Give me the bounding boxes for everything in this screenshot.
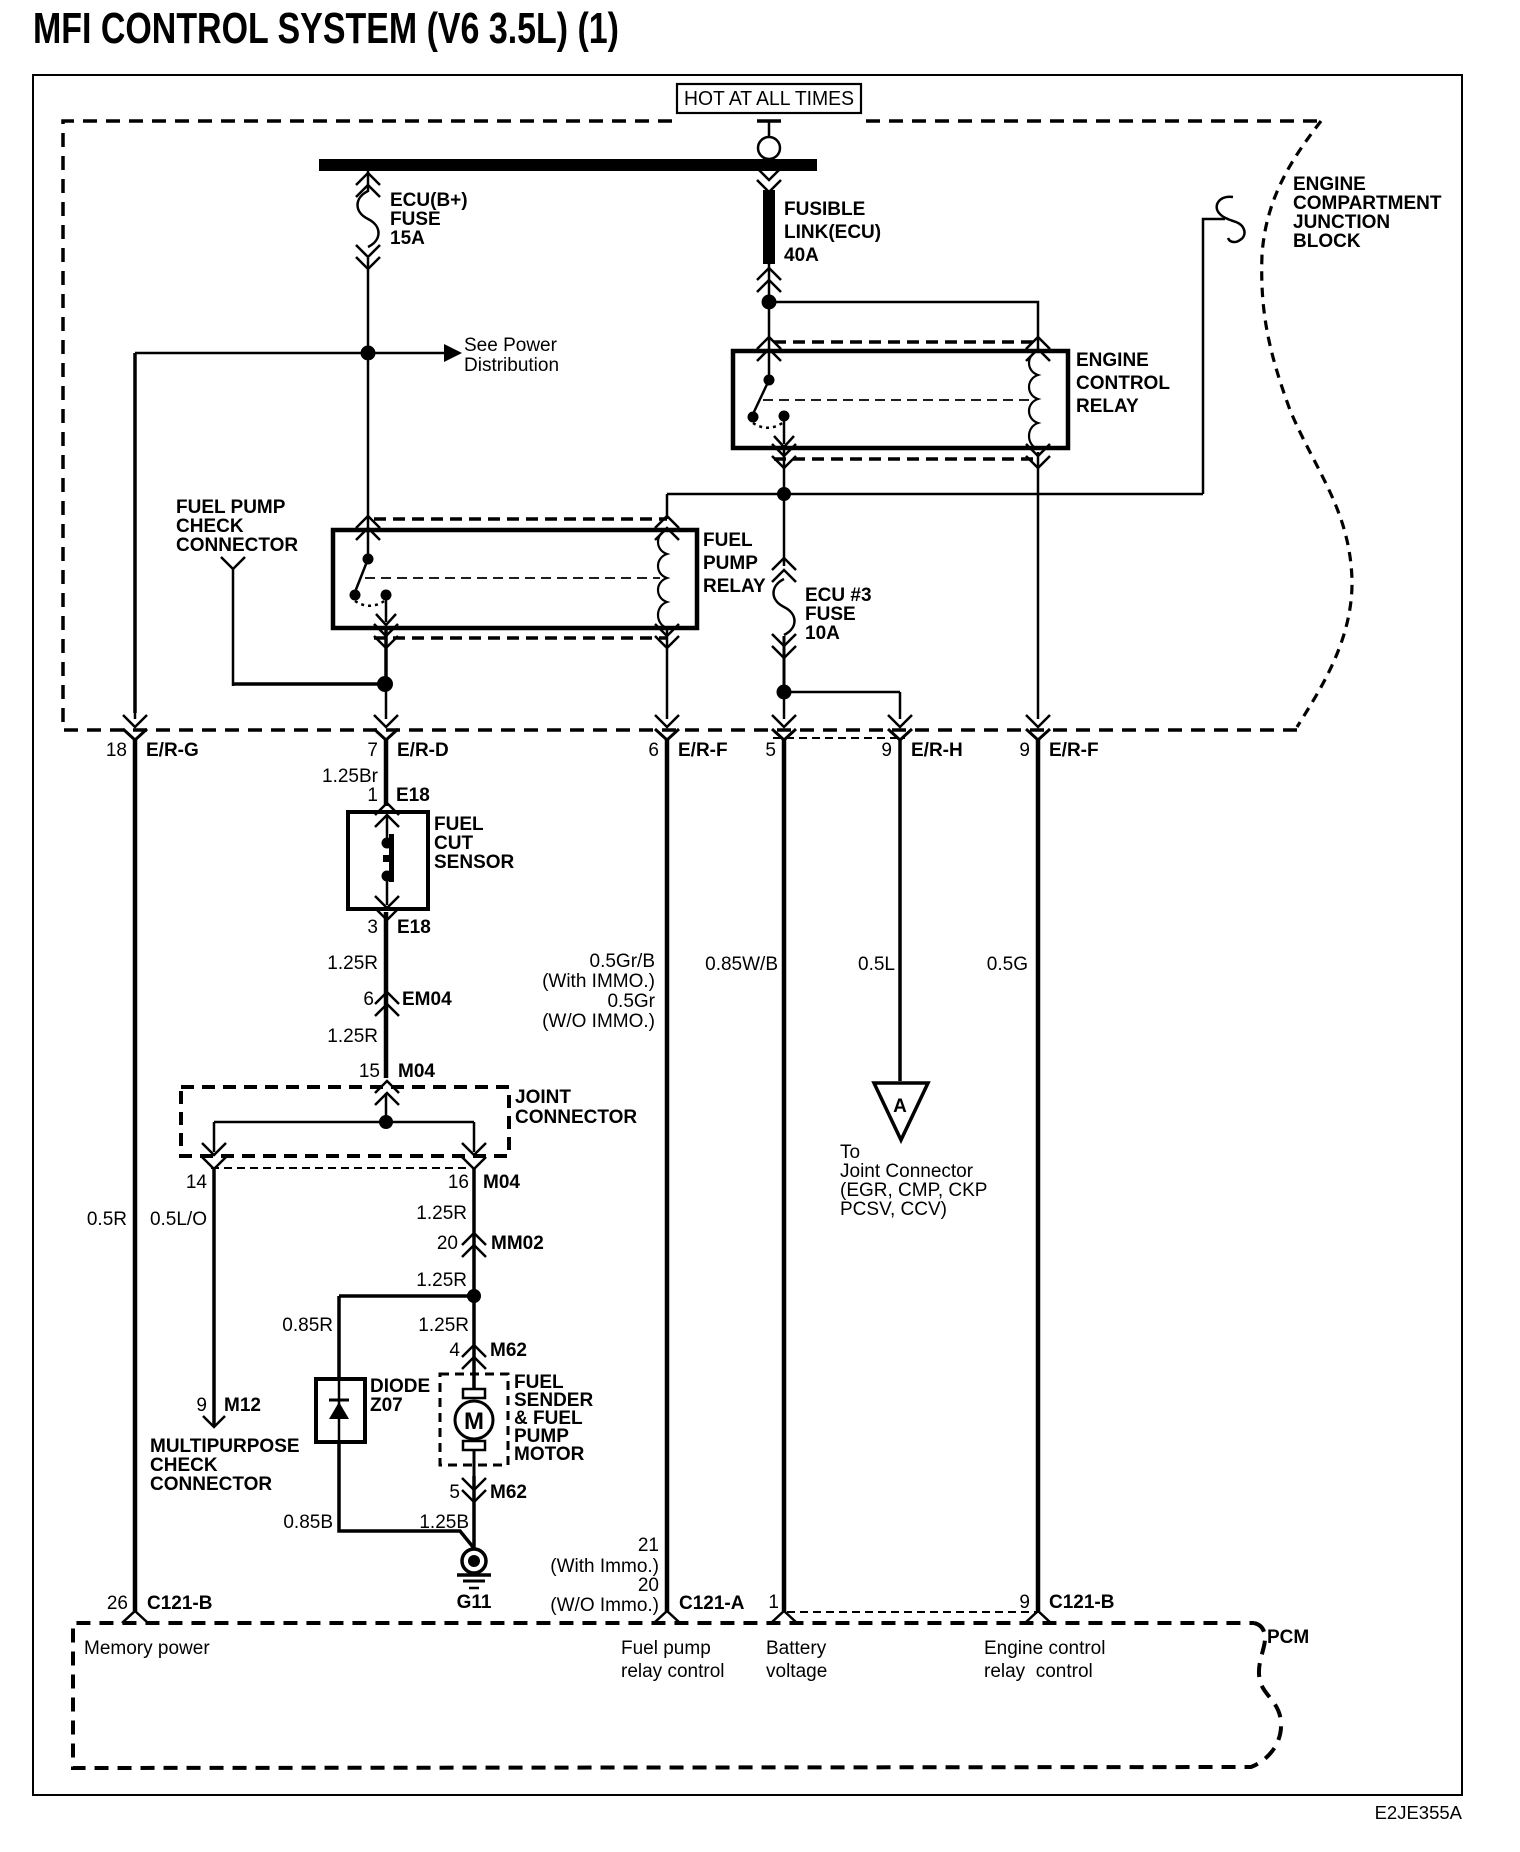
fuel cut sensor: [348, 803, 428, 920]
svg-text:M04: M04: [483, 1172, 520, 1193]
svg-text:E/R-D: E/R-D: [397, 740, 449, 761]
fuel pump relay: [333, 516, 697, 648]
wire: diode bottom to ground: [339, 1442, 473, 1547]
wire: E/R-H 9 column to triangle A: [899, 692, 902, 719]
svg-text:Joint Connector: Joint Connector: [840, 1161, 974, 1182]
svg-text:FUEL: FUEL: [703, 530, 753, 551]
pin 9 E/R-F label: [1019, 740, 1098, 761]
svg-text:To: To: [840, 1142, 860, 1163]
pin 9 E/R-H label: [881, 740, 962, 761]
secondary connector dash at C121: [787, 1611, 1040, 1613]
wire: memory power column (E/R-G 18): [133, 353, 137, 713]
relay switch: [363, 554, 374, 565]
svg-text:FUSIBLE: FUSIBLE: [784, 199, 865, 220]
svg-text:RELAY: RELAY: [703, 576, 766, 597]
triangle A reference: [874, 1083, 928, 1140]
svg-text:(EGR, CMP, CKP: (EGR, CMP, CKP: [840, 1180, 987, 1201]
svg-text:0.5L: 0.5L: [858, 954, 895, 975]
connector MM02 pin 20: [462, 1233, 486, 1245]
node E1 junction dot: [777, 685, 792, 700]
connector E/R-D crossing at junction block border: [374, 715, 398, 740]
svg-text:20: 20: [437, 1233, 458, 1254]
PCM dashed outline: [73, 1623, 1281, 1768]
svg-text:See Power: See Power: [464, 335, 558, 356]
svg-text:JUNCTION: JUNCTION: [1293, 212, 1390, 233]
connector M62 pin 4: [462, 1345, 486, 1357]
svg-text:Z07: Z07: [370, 1395, 403, 1416]
svg-text:14: 14: [186, 1172, 208, 1193]
svg-text:M: M: [464, 1408, 484, 1435]
relay coil: [658, 530, 667, 628]
diode Z07: [316, 1379, 365, 1442]
PCM pin function labels: [84, 1638, 1105, 1682]
label DIODE Z07: [370, 1376, 430, 1416]
junction block hook symbol: [1217, 197, 1245, 242]
secondary connector dashes under border: [773, 737, 905, 739]
wire: E/R-F 6 column (fuel pump relay control): [666, 630, 669, 719]
bus terminal circle: [758, 137, 780, 159]
svg-text:E/R-F: E/R-F: [678, 740, 728, 761]
svg-text:CHECK: CHECK: [176, 516, 244, 537]
svg-text:E/R-G: E/R-G: [146, 740, 199, 761]
svg-text:0.5R: 0.5R: [87, 1209, 127, 1230]
connector E/R-F pin 9 crossing at junction block border: [1026, 715, 1050, 740]
ground G11: [457, 1549, 492, 1613]
svg-text:voltage: voltage: [766, 1661, 827, 1682]
fuel sender & fuel pump motor: [440, 1374, 508, 1476]
junction block wavy right edge: [1262, 121, 1352, 727]
joint connector: [181, 1081, 509, 1169]
wire: bus to ECU(B+) fuse: [367, 171, 370, 192]
fuse ECU #3 10A: [774, 579, 795, 635]
fuel pump check connector fork terminal: [221, 557, 245, 569]
svg-text:MM02: MM02: [491, 1233, 544, 1254]
connector E/R-F pin 6 crossing at junction block border: [655, 715, 679, 740]
svg-text:Fuel pump: Fuel pump: [621, 1638, 711, 1659]
svg-text:(With IMMO.): (With IMMO.): [542, 971, 655, 992]
svg-text:Engine control: Engine control: [984, 1638, 1105, 1659]
connector EM04 pin 6: [375, 992, 399, 1004]
svg-text:LINK(ECU): LINK(ECU): [784, 222, 881, 243]
svg-text:M62: M62: [490, 1340, 527, 1361]
label ECU(B+) FUSE 15A: [390, 190, 468, 249]
svg-text:BLOCK: BLOCK: [1293, 231, 1361, 252]
svg-text:9: 9: [196, 1395, 207, 1416]
wire: node E1 right to E/R-H column: [784, 691, 900, 694]
node D1 junction dot: [377, 676, 393, 692]
wire: motor to ground: [472, 1476, 476, 1548]
svg-text:CONNECTOR: CONNECTOR: [150, 1474, 272, 1495]
label FUEL CUT SENSOR: [434, 814, 515, 873]
svg-text:1.25R: 1.25R: [327, 1026, 378, 1047]
wire: fuse to node E1: [783, 636, 786, 692]
svg-text:M12: M12: [224, 1395, 261, 1416]
svg-text:CONTROL: CONTROL: [1076, 373, 1170, 394]
svg-text:(With Immo.): (With Immo.): [550, 1556, 659, 1577]
svg-text:E/R-H: E/R-H: [911, 740, 963, 761]
label MULTIPURPOSE CHECK CONNECTOR: [150, 1436, 300, 1495]
svg-text:6: 6: [648, 740, 659, 761]
label FUEL SENDER & FUEL PUMP MOTOR: [514, 1372, 593, 1465]
svg-text:MULTIPURPOSE: MULTIPURPOSE: [150, 1436, 300, 1457]
svg-text:6: 6: [363, 989, 374, 1010]
wire: node A1 down to fuel pump relay switch: [367, 353, 370, 559]
wire: node B1 down into relay switch: [768, 302, 771, 380]
svg-text:C121-B: C121-B: [1049, 1592, 1114, 1613]
svg-text:COMPARTMENT: COMPARTMENT: [1293, 193, 1442, 214]
svg-text:ENGINE: ENGINE: [1076, 350, 1149, 371]
svg-text:HOT AT ALL TIMES: HOT AT ALL TIMES: [684, 87, 854, 110]
label ENGINE CONTROL RELAY: [1076, 350, 1170, 417]
svg-text:CONNECTOR: CONNECTOR: [176, 535, 298, 556]
svg-text:ECU(B+): ECU(B+): [390, 190, 468, 211]
svg-text:CHECK: CHECK: [150, 1455, 218, 1476]
wire: node C1 horizontal to junction block riser: [667, 219, 1225, 494]
svg-text:21: 21: [638, 1535, 659, 1556]
svg-text:1.25R: 1.25R: [416, 1203, 467, 1224]
wire: node B1 to engine control relay coil top: [769, 302, 1038, 351]
svg-text:5: 5: [449, 1482, 460, 1503]
svg-text:40A: 40A: [784, 245, 819, 266]
svg-text:Battery: Battery: [766, 1638, 827, 1659]
node F1 junction dot: [467, 1289, 481, 1303]
wire: fuse to node A1: [367, 258, 370, 353]
svg-text:7: 7: [367, 740, 378, 761]
svg-text:(W/O IMMO.): (W/O IMMO.): [542, 1011, 655, 1032]
svg-text:1.25R: 1.25R: [418, 1315, 469, 1336]
pin 18 E/R-G label: [106, 740, 199, 761]
connector pin 5 crossing at junction block border: [772, 715, 796, 740]
svg-text:DIODE: DIODE: [370, 1376, 430, 1397]
relay switch: [764, 375, 775, 386]
wire: fuel pump relay out down through border (E/R-D column top): [384, 628, 388, 684]
svg-text:PCM: PCM: [1267, 1627, 1309, 1648]
svg-text:FUEL PUMP: FUEL PUMP: [176, 497, 286, 518]
svg-text:FUSE: FUSE: [390, 209, 441, 230]
svg-text:A: A: [893, 1096, 907, 1117]
connector E/R-H crossing at junction block border: [888, 715, 912, 740]
svg-text:E2JE355A: E2JE355A: [1375, 1802, 1463, 1823]
pin 7 E/R-D label: [367, 740, 448, 761]
svg-text:0.5Gr/B: 0.5Gr/B: [590, 951, 655, 972]
svg-text:PCSV, CCV): PCSV, CCV): [840, 1199, 947, 1220]
label: See Power Distribution: [464, 335, 559, 376]
svg-text:PUMP: PUMP: [703, 553, 758, 574]
svg-text:relay control: relay control: [621, 1661, 725, 1682]
label ECU #3 FUSE 10A: [805, 585, 872, 644]
svg-text:10A: 10A: [805, 623, 840, 644]
label: ENGINE COMPARTMENT JUNCTION BLOCK: [1293, 174, 1442, 252]
arrowhead at M12: [203, 1416, 225, 1427]
wire: node A1 left to memory power column: [135, 352, 368, 355]
wire: fusible link to node B1: [768, 264, 771, 302]
wire from HOT box to bus terminal circle: [768, 121, 771, 138]
svg-text:1.25Br: 1.25Br: [322, 766, 379, 787]
svg-text:G11: G11: [457, 1592, 492, 1613]
pin 6 E/R-F label: [648, 740, 727, 761]
wire: E/R-D column down to fuel cut sensor: [385, 684, 388, 719]
fuse ECU(B+) 15A: [358, 191, 379, 247]
svg-text:Distribution: Distribution: [464, 355, 559, 376]
label FUEL PUMP RELAY: [703, 530, 766, 597]
svg-text:0.5Gr: 0.5Gr: [607, 991, 655, 1012]
pin labels 21/20 C121-A: [550, 1535, 744, 1616]
svg-text:0.85W/B: 0.85W/B: [705, 954, 778, 975]
wire: node F1 left to diode: [339, 1294, 474, 1298]
svg-text:9: 9: [881, 740, 892, 761]
fuel pump check connector label: [176, 497, 298, 556]
svg-text:20: 20: [638, 1575, 659, 1596]
svg-text:FUEL: FUEL: [434, 814, 484, 835]
svg-text:1: 1: [768, 1592, 779, 1613]
svg-text:FUSE: FUSE: [805, 604, 856, 625]
svg-text:relay control: relay control: [984, 1661, 1093, 1682]
connector E/R-G crossing at junction block border: [123, 715, 147, 740]
svg-text:3: 3: [367, 917, 378, 938]
wire: check connector down and right to node D1: [232, 569, 235, 686]
svg-text:0.85B: 0.85B: [283, 1512, 333, 1533]
power bus bar: [319, 159, 817, 171]
relay coil: [1029, 351, 1038, 449]
label To Joint Connector: [840, 1142, 987, 1220]
svg-text:26: 26: [107, 1593, 128, 1614]
svg-text:15: 15: [359, 1061, 380, 1082]
svg-text:ENGINE: ENGINE: [1293, 174, 1366, 195]
svg-text:CONNECTOR: CONNECTOR: [515, 1107, 637, 1128]
svg-text:M62: M62: [490, 1482, 527, 1503]
wire: engine control relay control column (E/R-F 9): [1037, 452, 1040, 719]
wire: bus to fusible link: [757, 168, 781, 180]
node B1 junction dot: [762, 295, 777, 310]
connector M62 pin 5: [462, 1478, 486, 1490]
wire: sensor to joint connector: [384, 912, 389, 1078]
svg-text:16: 16: [448, 1172, 469, 1193]
engine control relay: [733, 337, 1068, 468]
svg-text:C121-B: C121-B: [147, 1593, 212, 1614]
wire: fuel pump relay coil top up to node C1 line: [666, 494, 669, 519]
node A1 junction dot: [361, 346, 376, 361]
svg-text:JOINT: JOINT: [515, 1087, 571, 1108]
svg-text:ECU #3: ECU #3: [805, 585, 872, 606]
fusible link (ECU) 40A: [763, 190, 775, 264]
pin 9 C121-B crossing at PCM border: [1025, 1611, 1051, 1623]
svg-text:M04: M04: [398, 1061, 435, 1082]
svg-text:5: 5: [765, 740, 776, 761]
svg-text:E18: E18: [397, 917, 431, 938]
svg-text:EM04: EM04: [402, 989, 452, 1010]
pin C121-A crossing at PCM border: [654, 1611, 680, 1623]
svg-text:4: 4: [449, 1340, 460, 1361]
wire: node A1 to see power distribution arrow: [368, 352, 444, 355]
pin 1 crossing at PCM border: [771, 1611, 797, 1623]
engine compartment junction block dashed outline: [63, 121, 1297, 730]
svg-text:0.5G: 0.5G: [987, 954, 1028, 975]
wire: battery voltage column (5): [783, 692, 786, 719]
label FUSIBLE LINK(ECU) 40A: [784, 199, 881, 266]
svg-text:1: 1: [367, 785, 378, 806]
wire: relay switch out down to node C1: [783, 450, 786, 566]
svg-text:MFI CONTROL SYSTEM (V6 3.5L) (: MFI CONTROL SYSTEM (V6 3.5L) (1): [33, 4, 619, 53]
svg-text:0.85R: 0.85R: [282, 1315, 333, 1336]
svg-text:9: 9: [1019, 740, 1030, 761]
svg-text:MOTOR: MOTOR: [514, 1444, 585, 1465]
wire: node C1 to ECU #3 fuse: [772, 558, 796, 570]
svg-text:C121-A: C121-A: [679, 1593, 745, 1614]
svg-text:CUT: CUT: [434, 833, 473, 854]
svg-text:RELAY: RELAY: [1076, 396, 1139, 417]
wire: joint connector to multipurpose check connector: [212, 1169, 216, 1426]
svg-text:0.5L/O: 0.5L/O: [150, 1209, 207, 1230]
label JOINT CONNECTOR: [515, 1087, 637, 1128]
svg-text:SENSOR: SENSOR: [434, 852, 515, 873]
svg-text:1.25R: 1.25R: [416, 1270, 467, 1291]
wire labels with IMMO: [542, 951, 656, 1032]
svg-text:18: 18: [106, 740, 127, 761]
node C1 junction dot: [777, 487, 791, 501]
svg-text:Memory power: Memory power: [84, 1638, 210, 1659]
svg-text:E18: E18: [396, 785, 430, 806]
HOT AT ALL TIMES box: [677, 84, 861, 113]
svg-text:15A: 15A: [390, 228, 425, 249]
pin 26 crossing at PCM border: [122, 1611, 148, 1623]
wire: M04 16 down to fuel pump motor: [472, 1169, 476, 1396]
svg-text:E/R-F: E/R-F: [1049, 740, 1099, 761]
svg-text:1.25R: 1.25R: [327, 953, 378, 974]
svg-text:(W/O Immo.): (W/O Immo.): [550, 1595, 659, 1616]
svg-text:9: 9: [1019, 1592, 1030, 1613]
